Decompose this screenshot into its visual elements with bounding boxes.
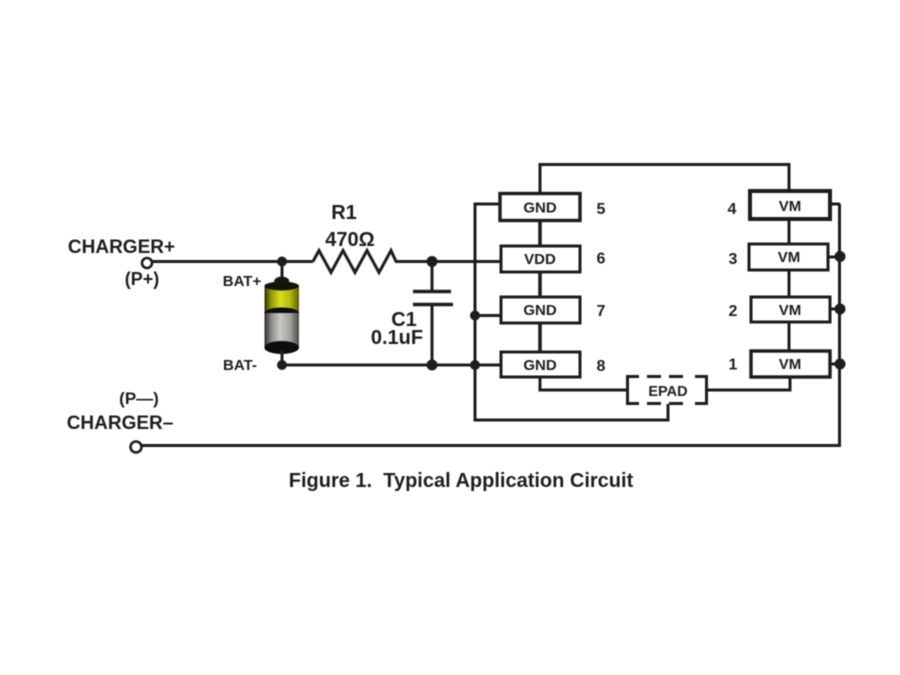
wire pin6 to pin7: [538, 272, 542, 297]
svg-text:VM: VM: [779, 198, 802, 215]
svg-text:GND: GND: [523, 302, 557, 319]
pin box GND 7: [501, 297, 580, 323]
pin box VDD 6: [501, 246, 580, 272]
junction capacitor bottom: [427, 360, 438, 371]
svg-text:5: 5: [597, 201, 606, 218]
wire CHARGER- bus: [142, 444, 841, 447]
svg-text:CHARGER+: CHARGER+: [68, 237, 175, 258]
pin box GND 5: [500, 194, 580, 221]
wire CHARGER+ to R1: [152, 260, 313, 263]
wire VM4 right stub: [830, 203, 840, 206]
wire pin5 to pin6: [538, 219, 542, 246]
svg-text:GND: GND: [523, 200, 557, 217]
wire right bus vertical: [838, 204, 841, 445]
svg-text:VM: VM: [779, 356, 802, 373]
svg-text:6: 6: [597, 251, 606, 268]
svg-text:VM: VM: [779, 302, 802, 319]
wire VM3 right stub: [828, 256, 840, 259]
pin box VM 1: [751, 351, 830, 377]
pin box VM 4: [750, 191, 830, 219]
junction VM2 bus: [835, 304, 846, 315]
svg-text:7: 7: [597, 303, 606, 320]
svg-text:BAT+: BAT+: [223, 273, 262, 290]
junction battery bottom: [277, 360, 287, 370]
wire R1 to VDD: [395, 260, 502, 263]
wire GND8 to EPAD: [540, 377, 626, 390]
capacitor C1: [413, 262, 453, 366]
wire pin4 to pin3: [788, 219, 791, 244]
resistor R1: [313, 251, 396, 273]
svg-text:0.1uF: 0.1uF: [371, 327, 423, 349]
svg-text:470Ω: 470Ω: [325, 229, 374, 251]
wire EPAD to VM1: [707, 377, 790, 390]
junction GND8 left vertical: [470, 360, 480, 370]
svg-text:8: 8: [597, 358, 606, 375]
wire BAT- to GND8: [282, 364, 502, 367]
svg-text:4: 4: [728, 201, 737, 218]
junction battery top: [277, 257, 287, 267]
svg-text:3: 3: [729, 251, 738, 268]
wire GND5 to EPAD loop: [475, 204, 668, 420]
junction capacitor top: [427, 256, 438, 267]
svg-text:(P+): (P+): [125, 269, 160, 289]
junction VM1 bus: [835, 359, 846, 370]
svg-text:VM: VM: [778, 249, 801, 266]
terminal CHARGER-: [131, 442, 142, 453]
wire battery positive stub: [281, 262, 284, 286]
svg-text:2: 2: [729, 303, 738, 320]
svg-text:R1: R1: [331, 202, 357, 224]
wire VM2 right stub: [830, 308, 840, 311]
wire VM1 right stub: [830, 363, 840, 366]
svg-text:CHARGER–: CHARGER–: [67, 413, 174, 434]
junction VM3 bus: [835, 251, 846, 262]
wire pin2 to pin1: [788, 322, 791, 351]
pin box VM 3: [749, 244, 828, 270]
wire pin7 to pin8: [538, 323, 542, 352]
junction GND7 stub: [470, 311, 480, 321]
terminal CHARGER+: [142, 258, 152, 268]
EPAD pad outline: [628, 377, 707, 404]
wire GND7 stub: [475, 314, 502, 317]
wire battery negative stub: [281, 350, 284, 365]
pin box GND 8: [501, 352, 580, 377]
wire top bus: [540, 165, 789, 194]
pin box VM 2: [751, 297, 830, 322]
svg-text:BAT-: BAT-: [223, 357, 257, 374]
wire pin3 to pin2: [788, 270, 791, 297]
svg-text:VDD: VDD: [524, 251, 556, 268]
svg-text:(P—): (P—): [119, 389, 159, 408]
battery B1: [264, 277, 299, 355]
svg-text:GND: GND: [523, 357, 557, 374]
svg-text:Figure 1. Typical Application: Figure 1. Typical Application Circuit: [289, 470, 634, 492]
svg-text:EPAD: EPAD: [648, 384, 687, 400]
svg-text:1: 1: [729, 357, 738, 374]
